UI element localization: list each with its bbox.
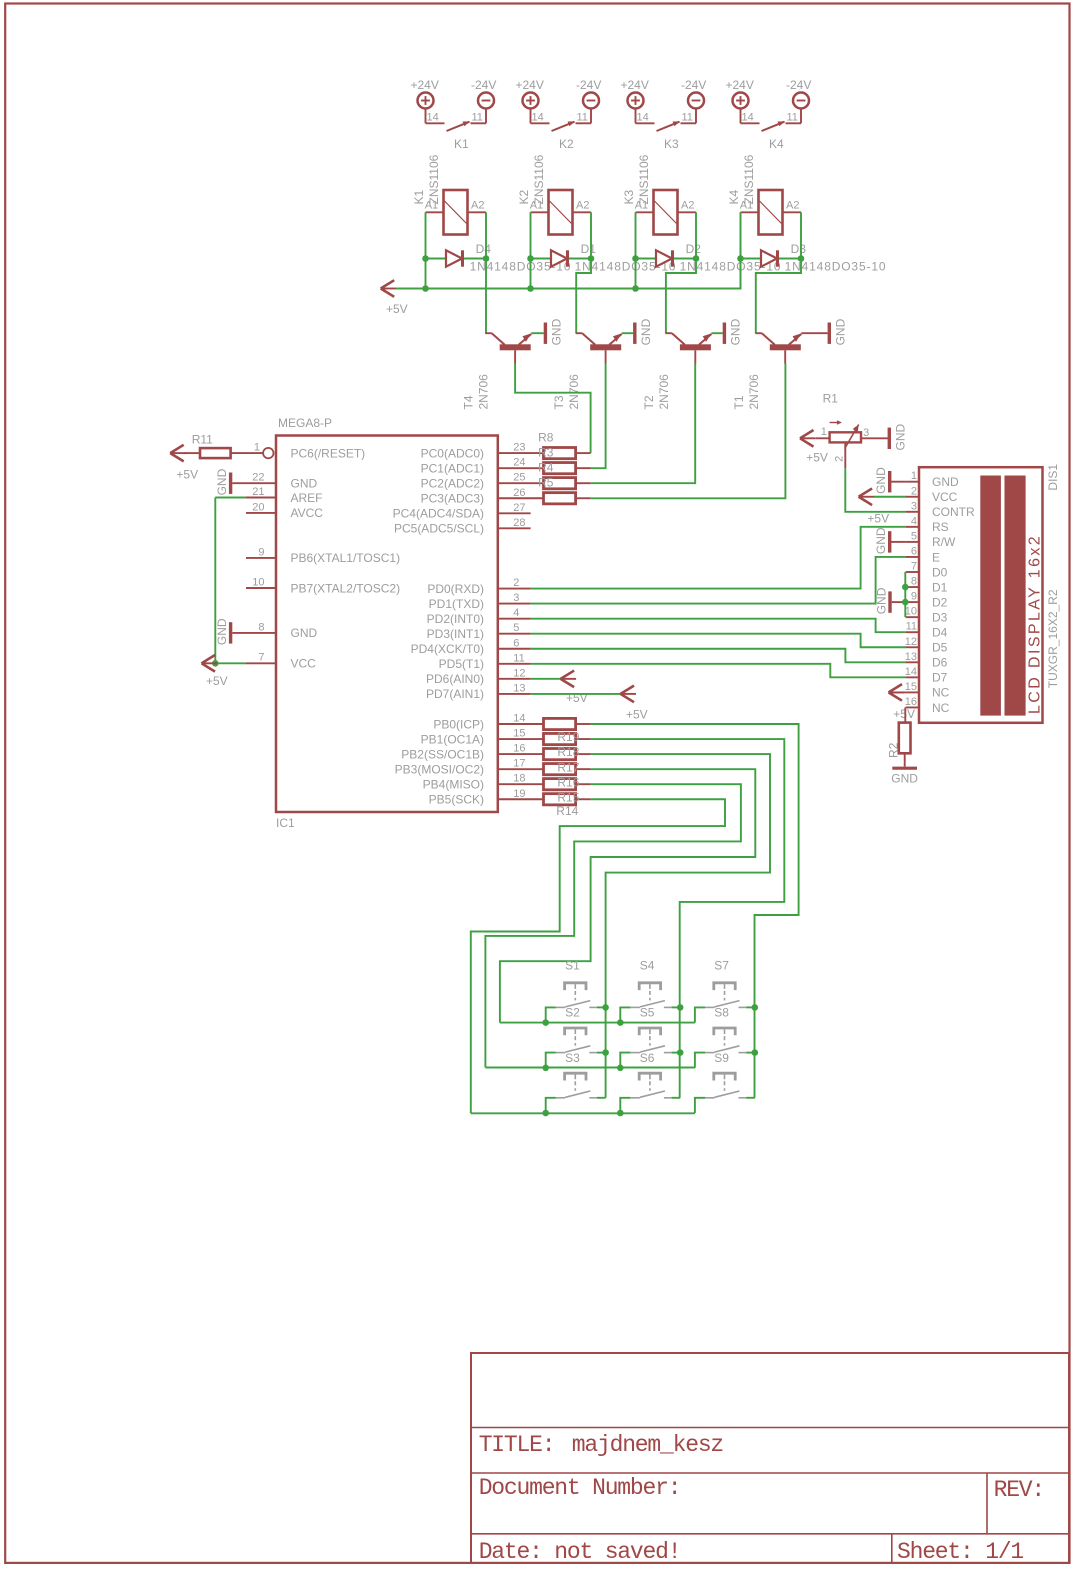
svg-text:R19: R19 [557,730,579,744]
svg-text:1: 1 [911,470,917,482]
IC1 pin 14 PB0(ICP) [433,713,543,732]
svg-text:ZNS1106: ZNS1106 [637,154,651,204]
relay coil K1 (ZNS1106) [412,154,486,234]
svg-text:R3: R3 [538,446,554,460]
svg-text:A1: A1 [425,199,438,211]
diode D1 1N4148DO35-10 [531,242,677,274]
ground (IC1 pin 8) [215,618,232,645]
supply +24V terminal (K2) [516,78,544,109]
svg-text:NC: NC [932,701,950,715]
svg-text:R2: R2 [887,742,901,758]
supply +24V terminal (K1) [411,78,439,109]
diode D2 1N4148DO35-10 [636,242,782,274]
wire S5 right terminal [672,1052,681,1054]
LCD pin 13 D6 [905,651,948,670]
svg-text:R11: R11 [192,433,213,447]
junction S4 row bus [617,1019,624,1026]
wire S4 left terminal drop [620,1007,630,1022]
wire K4 A2 to T1 collector [756,212,801,333]
svg-text:14: 14 [513,713,525,725]
junction K3 A2/diode cathode [693,255,700,262]
svg-text:CONTR: CONTR [932,505,975,519]
svg-text:VCC: VCC [932,490,958,504]
wire keypad row 3 bus [471,1112,695,1114]
resistor R8 [544,448,591,459]
svg-text:11: 11 [513,652,524,664]
LCD pin 2 VCC [906,485,958,504]
junction S6 row bus [617,1110,624,1117]
svg-text:10: 10 [252,576,264,588]
wire T2 emitter to ground [711,332,722,334]
resistor R16 [544,779,591,790]
svg-text:+5V: +5V [893,707,915,721]
wire PD1 to LCD E [531,557,906,604]
IC1 pin 11 PD5(T1) [439,652,531,671]
svg-text:PD0(RXD): PD0(RXD) [427,582,484,596]
junction K4 A1/diode anode [737,255,744,262]
svg-text:GND: GND [891,772,918,786]
svg-text:27: 27 [513,502,525,514]
svg-text:ZNS1106: ZNS1106 [532,154,546,204]
relay coil K3 (ZNS1106) [622,154,696,234]
title block frame [471,1353,1069,1563]
svg-text:PC2(ADC2): PC2(ADC2) [421,477,484,491]
svg-text:LCD DISPLAY 16x2: LCD DISPLAY 16x2 [1027,534,1044,714]
svg-text:1: 1 [821,426,827,438]
relay contact K4 (pins 14/11) [741,108,802,151]
IC1 pin 10 PB7(XTAL2/TOSC2) [246,576,400,595]
svg-text:2N706: 2N706 [747,374,761,410]
svg-text:28: 28 [513,517,525,529]
ground (T2 emitter) [723,318,743,345]
svg-text:R/W: R/W [932,535,956,549]
svg-text:D3: D3 [791,242,807,256]
svg-text:PC3(ADC3): PC3(ADC3) [421,492,484,506]
svg-text:D6: D6 [932,656,948,670]
LCD pin 12 D5 [905,636,948,655]
svg-text:19: 19 [513,788,525,800]
svg-text:20: 20 [252,501,264,513]
IC1 pin 1 PC6(/RESET) [254,442,365,461]
svg-text:Sheet: 1/1: Sheet: 1/1 [897,1539,1023,1565]
svg-text:PD6(AIN0): PD6(AIN0) [426,672,484,686]
svg-text:D4: D4 [476,242,492,256]
+5V supply arrow (R1 pin 1) [800,430,828,465]
svg-text:14: 14 [905,666,917,678]
transistor T4 2N706 [462,333,532,409]
svg-text:Date: not saved!: Date: not saved! [479,1539,681,1565]
svg-text:S5: S5 [640,1006,655,1020]
svg-text:GND: GND [932,475,959,489]
svg-text:+5V: +5V [867,511,889,525]
svg-text:Document Number:: Document Number: [479,1475,681,1501]
LCD pin 16 NC [905,696,950,715]
supply -24V terminal (K3) [681,78,706,109]
switch S7 [705,959,746,1008]
wire PD0 to LCD RS [531,527,906,589]
+5V supply arrow (PD6) [561,671,588,705]
IC1 pin 9 PB6(XTAL1/TOSC1) [246,546,400,565]
IC1 pin 27 PC4(ADC4/SDA) [393,502,531,521]
IC1 pin 7 VCC [246,652,316,671]
svg-text:17: 17 [513,758,525,770]
LCD pin 14 D7 [905,666,948,685]
IC1 pin 21 AREF [246,486,323,505]
svg-text:A2: A2 [471,199,484,211]
wire S3 left terminal drop [546,1098,556,1113]
svg-text:S3: S3 [565,1051,580,1065]
svg-text:14: 14 [427,112,439,124]
wire PD5 to LCD D7 [531,664,906,678]
svg-text:PD4(XCK/T0): PD4(XCK/T0) [411,642,484,656]
wire S1 right terminal [597,1006,606,1008]
svg-text:R8: R8 [538,430,554,444]
svg-text:15: 15 [905,681,917,693]
svg-text:1N4148DO35-10: 1N4148DO35-10 [785,260,887,274]
wire S7 right terminal [746,1006,755,1008]
wire AREF to VCC (+5V) [215,498,246,664]
junction bus/K1 A1 [422,285,429,292]
svg-text:+24V: +24V [726,78,754,92]
IC1 pin 5 PD3(INT1) [427,622,531,641]
resistor R15 [544,794,591,805]
svg-text:E: E [932,550,940,564]
resistor R19 [544,733,591,744]
svg-text:D7: D7 [932,671,948,685]
svg-text:D1: D1 [932,580,948,594]
wire K1 A2 to T4 collector [485,212,487,333]
junction bus/K2 A1 [527,285,534,292]
svg-text:-24V: -24V [681,78,706,92]
svg-text:VCC: VCC [291,657,317,671]
svg-text:R4: R4 [538,461,554,475]
IC1 pin 26 PC3(ADC3) [421,487,544,506]
svg-text:GND: GND [291,477,318,491]
wire PD7 to +5V [531,693,621,695]
IC1 pin 6 PD4(XCK/T0) [411,637,531,656]
resistor R17 [544,764,591,775]
wire S8 right terminal [746,1052,755,1054]
relay contact K1 (pins 14/11) [426,108,487,151]
wire S4 right terminal [672,1006,681,1008]
svg-text:A1: A1 [635,199,648,211]
svg-text:1: 1 [254,442,260,454]
wire PB2 to keypad column 1 [591,754,770,1098]
svg-text:2: 2 [911,485,917,497]
wire PD2 to LCD D4 [531,619,906,633]
LCD pin 9 D2 [906,591,948,610]
svg-text:D1: D1 [581,242,597,256]
svg-text:4: 4 [911,515,917,527]
LCD pin 1 GND [906,470,959,489]
+5V supply arrow (relay bus) [381,280,408,316]
wire S7 left terminal drop [695,1007,705,1022]
svg-text:26: 26 [513,487,525,499]
svg-text:-24V: -24V [471,78,496,92]
wire S1 left terminal drop [546,1007,556,1022]
ground (T4 emitter) [544,318,564,345]
LCD pin 8 D1 [906,576,948,595]
wire PB3 to keypad row 1 [500,769,755,1022]
svg-text:9: 9 [258,546,264,558]
IC1 pin 20 AVCC [246,501,323,520]
svg-text:14: 14 [532,112,544,124]
svg-text:PD5(T1): PD5(T1) [439,657,484,671]
svg-text:-24V: -24V [576,78,601,92]
relay contact K2 (pins 14/11) [531,108,592,151]
wire PB1 to keypad column 2 [591,739,785,1098]
junction S2 row bus [542,1065,549,1072]
junction K2 A2/diode cathode [588,255,595,262]
trimmer R1 [816,392,888,469]
relay coil K4 (ZNS1106) [727,154,801,234]
svg-text:PB5(SCK): PB5(SCK) [429,793,484,807]
svg-text:majdnem_kesz: majdnem_kesz [572,1432,723,1458]
LCD pin 3 CONTR [906,500,975,519]
svg-text:RS: RS [932,520,949,534]
svg-text:R1: R1 [823,392,839,406]
svg-text:PC1(ADC1): PC1(ADC1) [421,461,484,475]
svg-text:3: 3 [513,592,519,604]
wire S3 right terminal [597,1097,606,1099]
wire PD4 to LCD D6 [531,649,906,663]
transistor T3 2N706 [552,333,622,409]
svg-text:GND: GND [291,626,318,640]
relay contact K3 (pins 14/11) [636,108,697,151]
LCD pin 4 RS [906,515,949,534]
junction S8 column [752,1049,759,1056]
svg-text:AREF: AREF [291,491,323,505]
svg-text:S1: S1 [565,959,580,973]
switch S3 [556,1051,597,1098]
wire S6 left terminal drop [620,1098,630,1113]
ground (IC1 pin 22) [215,468,232,495]
ground (T1 emitter) [828,318,848,345]
svg-text:GND: GND [639,318,653,345]
switch S9 [705,1051,746,1098]
svg-text:A2: A2 [681,199,694,211]
svg-text:2N706: 2N706 [657,374,671,410]
wire keypad row 2 bus [485,1067,695,1069]
wire T4 base to resistor R8 [515,363,591,453]
svg-text:5: 5 [911,530,917,542]
IC1 pin 28 PC5(ADC5/SCL) [394,517,531,536]
wire K3 A2 to T2 collector [666,212,696,333]
svg-text:S2: S2 [565,1006,580,1020]
svg-text:10: 10 [905,606,917,618]
svg-text:PB2(SS/OC1B): PB2(SS/OC1B) [401,747,484,761]
svg-text:TITLE:: TITLE: [479,1432,555,1458]
relay coil K2 (ZNS1106) [517,154,591,234]
svg-text:22: 22 [252,472,264,484]
wire keypad row 1 bus [500,1022,695,1024]
svg-text:2: 2 [834,456,846,462]
switch S1 [556,959,597,1008]
svg-text:PC6(/RESET): PC6(/RESET) [291,446,366,460]
svg-text:MEGA8-P: MEGA8-P [278,416,332,430]
svg-text:-24V: -24V [786,78,811,92]
wire K3 A1 to +5V bus [635,212,637,288]
svg-text:3: 3 [863,427,869,439]
resistor R5 [544,493,591,504]
wire LCD pin16 to R2 [904,707,906,722]
IC1 pin 8 GND [232,621,317,640]
junction K1 A2/diode cathode [483,255,490,262]
wire S9 left terminal drop [695,1098,705,1113]
svg-text:TUXGR_16X2_R2: TUXGR_16X2_R2 [1046,589,1060,688]
svg-text:+5V: +5V [626,708,648,722]
svg-text:S9: S9 [714,1051,729,1065]
IC1 pin 25 PC2(ADC2) [421,472,544,491]
svg-text:5: 5 [513,622,519,634]
LCD pin 5 R/W [906,530,956,549]
svg-text:+24V: +24V [411,78,439,92]
wire S5 left terminal drop [620,1053,630,1068]
IC1 pin 16 PB2(SS/OC1B) [401,743,543,762]
svg-text:GND: GND [874,527,888,554]
junction K2 A1/diode anode [527,255,534,262]
svg-text:3: 3 [911,500,917,512]
svg-text:13: 13 [905,651,917,663]
svg-text:K4: K4 [769,137,784,151]
switch S8 [705,1006,746,1053]
svg-text:12: 12 [905,636,917,648]
svg-text:NC: NC [932,686,950,700]
svg-text:ZNS1106: ZNS1106 [742,154,756,204]
supply -24V terminal (K1) [471,78,496,109]
wire S9 right terminal [746,1097,755,1099]
resistor R11 [184,433,263,459]
wire T3 emitter to ground [622,332,633,334]
IC1 pin 13 PD7(AIN1) [426,682,531,701]
+5V supply arrow (reset) [170,445,198,482]
svg-text:+5V: +5V [386,302,408,316]
svg-text:14: 14 [637,112,649,124]
svg-text:GND: GND [549,318,563,345]
svg-text:2N706: 2N706 [477,374,491,410]
svg-text:PC0(ADC0): PC0(ADC0) [421,446,484,460]
supply -24V terminal (K2) [576,78,601,109]
svg-text:A1: A1 [740,199,753,211]
junction S1 row bus [542,1019,549,1026]
wire PD3 to LCD D5 [531,634,906,648]
svg-text:9: 9 [911,591,917,603]
svg-text:AVCC: AVCC [291,506,324,520]
svg-text:S8: S8 [714,1006,729,1020]
svg-text:15: 15 [513,728,525,740]
svg-text:11: 11 [906,621,917,633]
+5V supply arrow (LCD VCC) [859,488,906,525]
svg-text:D2: D2 [932,595,948,609]
svg-text:PD1(TXD): PD1(TXD) [429,597,484,611]
IC1 pin 17 PB3(MOSI/OC2) [395,758,544,777]
svg-text:T1: T1 [732,395,746,409]
svg-text:11: 11 [577,112,588,124]
diode D3 1N4148DO35-10 [741,242,887,274]
svg-text:24: 24 [513,457,525,469]
svg-text:R16: R16 [557,775,579,789]
resistor R4 [544,478,591,489]
svg-text:PC4(ADC4/SDA): PC4(ADC4/SDA) [393,507,484,521]
svg-text:GND: GND [893,424,907,451]
svg-text:PB7(XTAL2/TOSC2): PB7(XTAL2/TOSC2) [291,581,401,595]
wire T2 base to resistor R4 [591,363,696,483]
svg-text:PD2(INT0): PD2(INT0) [427,612,484,626]
IC1 pin 19 PB5(SCK) [429,788,544,807]
junction S1 column [602,1004,609,1011]
svg-text:A2: A2 [786,199,799,211]
svg-text:21: 21 [252,486,264,498]
svg-text:23: 23 [513,442,525,454]
junction bus/K3 A1 [632,285,639,292]
svg-text:GND: GND [215,618,229,645]
switch S4 [630,959,671,1008]
svg-text:16: 16 [513,743,525,755]
svg-text:+24V: +24V [621,78,649,92]
svg-text:D3: D3 [932,610,948,624]
wire K4 A1 to +5V bus [740,212,742,288]
svg-text:11: 11 [682,112,693,124]
svg-text:2: 2 [513,577,519,589]
svg-text:REV:: REV: [994,1477,1044,1503]
svg-text:PB0(ICP): PB0(ICP) [433,717,484,731]
diode D4 1N4148DO35-10 [426,242,572,274]
svg-text:PB3(MOSI/OC2): PB3(MOSI/OC2) [395,762,484,776]
svg-text:K3: K3 [664,137,679,151]
+5V supply arrow (PD7) [621,686,648,722]
LCD pin 10 D3 [905,606,948,625]
junction K1 A1/diode anode [422,255,429,262]
svg-text:14: 14 [742,112,754,124]
svg-text:18: 18 [513,773,525,785]
wire +5V bus to K4 A1 [396,212,741,288]
svg-text:R17: R17 [557,760,579,774]
IC1 pin 23 PC0(ADC0) [421,442,544,461]
junction LCD D1 [902,584,909,591]
svg-text:7: 7 [911,561,917,573]
IC1 pin 2 PD0(RXD) [427,577,530,596]
svg-text:K1: K1 [454,137,469,151]
LCD pin 15 NC [905,681,950,700]
title text TITLE: majdnem_kesz [479,1432,723,1458]
svg-text:GND: GND [728,318,742,345]
svg-text:11: 11 [787,112,798,124]
resistor R2 [887,723,911,767]
svg-text:PD7(AIN1): PD7(AIN1) [426,687,484,701]
IC1 pin 22 GND [232,472,317,491]
svg-text:PB1(OC1A): PB1(OC1A) [421,732,484,746]
svg-text:8: 8 [911,576,917,588]
ground (LCD pin 1) [874,467,905,494]
switch S5 [630,1006,671,1053]
junction S5 column [677,1049,684,1056]
junction S7 column [752,1004,759,1011]
svg-text:D2: D2 [686,242,702,256]
wire T1 emitter to ground [801,332,827,334]
svg-text:GND: GND [875,587,889,614]
ground (LCD R/W) [874,527,905,554]
wire LCD D0-D3 tie [904,572,906,617]
svg-text:R5: R5 [538,476,554,490]
wire PD6 to +5V [531,678,561,680]
junction S5 row bus [617,1065,624,1072]
svg-text:13: 13 [513,682,525,694]
svg-text:T4: T4 [462,395,476,409]
svg-text:T2: T2 [642,395,656,409]
svg-text:ZNS1106: ZNS1106 [427,154,441,204]
svg-text:+24V: +24V [516,78,544,92]
junction VCC node [212,660,219,667]
